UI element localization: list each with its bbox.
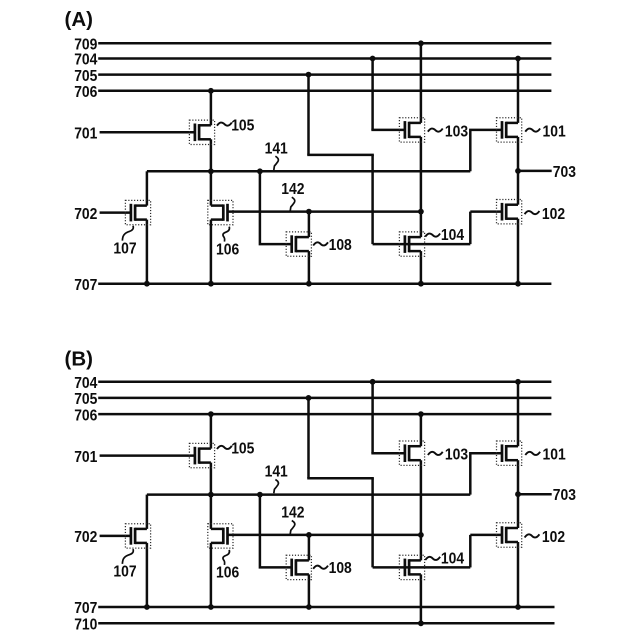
wire node 703 stub — [518, 493, 552, 496]
junction 706 x drain-wire of 105 — [208, 88, 214, 94]
svg-text:104: 104 — [441, 551, 464, 568]
svg-text:107: 107 — [113, 564, 136, 581]
wire 704 to gate of 103 down — [371, 59, 374, 130]
transistor 102 — [497, 200, 522, 224]
wire 706 to drain of 105 — [210, 91, 213, 126]
leader for label 142 — [290, 197, 295, 211]
wire bus 705 — [98, 73, 551, 76]
label ~105 — [217, 123, 232, 126]
junction 706 x drain-wire of 103 — [418, 411, 424, 417]
wire 701 to gate of 105 — [100, 131, 195, 134]
svg-text:(A): (A) — [65, 8, 93, 31]
wire node 142 — [228, 534, 421, 537]
transistor 107 — [125, 200, 150, 224]
svg-text:704: 704 — [74, 52, 97, 69]
wire bus 707 — [98, 282, 551, 285]
wire gate of 104 through-line to 102 gate route — [373, 566, 471, 569]
junction 704 x gate-wire of 103 — [370, 379, 376, 385]
junction 705 x gate-route of 104 — [306, 395, 312, 401]
junction 707 x source of 106 — [208, 281, 214, 287]
wire gate of 104 through-line to 102 gate route — [373, 243, 471, 246]
wire bus 706 — [98, 90, 551, 93]
junction 707 x source of 108 — [306, 281, 312, 287]
wire source of 102 to 707 — [517, 542, 520, 607]
wire source of 104 to 710 — [420, 574, 423, 623]
svg-text:101: 101 — [543, 447, 566, 464]
svg-text:142: 142 — [281, 181, 304, 198]
junction node 141 x 105/106 column — [208, 168, 214, 174]
wire 704 to gate of 103 horizontal — [371, 129, 405, 132]
transistor 106 — [208, 200, 233, 224]
transistor 105 — [189, 443, 214, 467]
transistor 105 — [189, 120, 214, 144]
label ~103 — [428, 128, 443, 131]
transistor 103 — [399, 441, 424, 465]
junction 707 x source of 102 — [515, 281, 521, 287]
svg-text:705: 705 — [74, 68, 97, 85]
wire bus 709 — [98, 42, 551, 45]
leader for label 141 — [274, 156, 279, 170]
svg-text:101: 101 — [543, 123, 566, 140]
svg-text:106: 106 — [216, 565, 239, 582]
wire source of 102 to 707 — [517, 219, 520, 284]
wire node 141 — [147, 170, 470, 173]
wire source of 105 to node 141 — [210, 139, 213, 171]
svg-text:107: 107 — [113, 240, 136, 257]
junction node 141 x gate-wire of 108 — [257, 492, 263, 498]
svg-text:102: 102 — [542, 529, 565, 546]
junction 707 x source of 106 — [208, 604, 214, 610]
wire 705 route down to gate of 104 — [371, 478, 374, 567]
wire node 141 to gate of 108 — [260, 495, 292, 568]
wire source of 108 to 707 — [308, 251, 311, 284]
svg-text:105: 105 — [231, 441, 254, 458]
wire 705 route horizontal — [307, 154, 374, 157]
junction node 142 x drain-wire of 108 — [306, 532, 312, 538]
junction 707 x source of 108 — [306, 604, 312, 610]
svg-text:706: 706 — [74, 407, 97, 424]
wire 705 route down — [307, 75, 310, 155]
svg-text:702: 702 — [74, 206, 97, 223]
svg-text:707: 707 — [74, 277, 97, 294]
label ~108 — [313, 242, 328, 245]
junction node 703 — [515, 168, 521, 174]
wire 704 to drain of 101 — [517, 382, 520, 446]
label ~108 — [313, 566, 328, 569]
transistor 106 — [208, 524, 233, 548]
wire source of 107 to 707 — [146, 220, 149, 284]
wire 704 to drain of 101 — [517, 59, 520, 123]
wire source of 106 to 707 — [210, 543, 213, 607]
junction 710 x source of 104 — [418, 620, 424, 626]
wire source of 101 to node 703 — [517, 460, 520, 494]
svg-text:108: 108 — [329, 560, 352, 577]
junction node 703 — [515, 491, 521, 497]
label ~103 — [428, 452, 443, 455]
wire node 141 to gate of 108 — [260, 171, 292, 244]
wire node 141 to drain of 106 — [210, 495, 213, 529]
svg-text:104: 104 — [441, 227, 464, 244]
svg-text:102: 102 — [542, 206, 565, 223]
wire bus 704 — [98, 381, 551, 384]
svg-text:142: 142 — [281, 505, 304, 522]
wire node 142 to drain of 108 — [308, 212, 311, 238]
leader for label 107 — [122, 549, 133, 564]
wire bus 707 — [98, 606, 554, 609]
wire node 141 to gate of 101 — [470, 453, 502, 494]
wire node 141 to drain of 106 — [210, 171, 213, 205]
svg-text:141: 141 — [265, 464, 288, 481]
svg-text:108: 108 — [329, 237, 352, 254]
svg-text:103: 103 — [445, 123, 468, 140]
wire 102 gate route up — [469, 212, 472, 245]
wire source of 105 to node 141 — [210, 463, 213, 495]
wire 705 route horizontal — [307, 477, 374, 480]
junction 705 x gate-route of 104 — [306, 72, 312, 78]
wire 702 to gate of 107 — [100, 535, 131, 538]
junction node 142 x drain-wire of 108 — [306, 209, 312, 215]
svg-text:141: 141 — [265, 140, 288, 157]
svg-text:705: 705 — [74, 391, 97, 408]
junction 707 x source of 107 — [144, 281, 150, 287]
wire 701 to gate of 105 — [100, 454, 195, 457]
junction 706 x drain-wire of 105 — [208, 411, 214, 417]
wire 702 to gate of 107 — [100, 211, 131, 214]
wire 704 to gate of 103 horizontal — [371, 452, 405, 455]
wire node 703 to drain of 102 — [517, 494, 520, 528]
wire to gate of 102 — [470, 534, 502, 537]
wire 704 to gate of 103 down — [371, 382, 374, 453]
wire source of 104 to 707 — [420, 251, 423, 284]
leader for label 107 — [122, 226, 133, 241]
wire node 703 stub — [518, 170, 552, 173]
wire source of 101 to node 703 — [517, 137, 520, 171]
svg-text:105: 105 — [231, 117, 254, 134]
junction node 141 x gate-wire of 108 — [257, 168, 263, 174]
svg-text:706: 706 — [74, 84, 97, 101]
wire source of 106 to 707 — [210, 220, 213, 284]
svg-text:704: 704 — [74, 375, 97, 392]
wire bus 706 — [98, 413, 551, 416]
wire 705 route down — [307, 398, 310, 478]
junction 709 x drain-wire of 103 — [418, 40, 424, 46]
wire node 141 to drain of 107 — [146, 171, 149, 205]
junction node 142 x 103/104 column — [418, 209, 424, 215]
transistor 108 — [286, 232, 311, 256]
wire bus 710 — [98, 622, 554, 625]
label ~102 — [525, 534, 540, 537]
transistor 101 — [497, 118, 522, 142]
junction node 141 x 105/106 column — [208, 492, 214, 498]
wire bus 704 — [98, 57, 551, 60]
leader for label 142 — [290, 521, 295, 535]
label ~104 — [425, 233, 440, 236]
transistor 104 — [399, 555, 424, 579]
svg-text:106: 106 — [216, 241, 239, 258]
svg-text:710: 710 — [74, 617, 97, 634]
svg-text:707: 707 — [74, 600, 97, 617]
leader for label 106 — [223, 550, 230, 565]
wire 709 to drain of 103 — [420, 43, 423, 123]
wire 706 to drain of 105 — [210, 414, 213, 449]
transistor 102 — [497, 523, 522, 547]
junction 707 x source of 104 — [418, 281, 424, 287]
wire to gate of 102 — [470, 210, 502, 213]
label ~101 — [525, 452, 540, 455]
label ~102 — [525, 211, 540, 214]
junction 707 x source of 107 — [144, 604, 150, 610]
wire bus 705 — [98, 397, 551, 400]
wire node 141 — [147, 493, 470, 496]
svg-text:(B): (B) — [65, 347, 93, 370]
svg-text:703: 703 — [553, 164, 576, 181]
junction 704 x gate-wire of 103 — [370, 56, 376, 62]
wire node 141 to gate of 101 — [470, 130, 502, 171]
wire source of 103 to drain of 104 — [420, 137, 423, 237]
label ~101 — [525, 128, 540, 131]
label ~105 — [217, 446, 232, 449]
wire 102 gate route up — [469, 535, 472, 568]
transistor 104 — [399, 232, 424, 256]
junction 704 x drain-wire of 101 — [515, 379, 521, 385]
wire source of 108 to 707 — [308, 574, 311, 607]
transistor 108 — [286, 555, 311, 579]
junction 707 x source of 102 — [515, 604, 521, 610]
leader for label 141 — [274, 480, 279, 494]
wire node 142 — [228, 210, 421, 213]
wire source of 103 to drain of 104 — [420, 460, 423, 560]
wire node 703 to drain of 102 — [517, 171, 520, 205]
wire 705 route down to gate of 104 — [371, 155, 374, 244]
svg-text:702: 702 — [74, 529, 97, 546]
wire node 141 to drain of 107 — [146, 495, 149, 529]
svg-text:103: 103 — [445, 447, 468, 464]
junction 704 x drain-wire of 101 — [515, 56, 521, 62]
wire 706 to drain of 103 — [420, 414, 423, 446]
transistor 107 — [125, 524, 150, 548]
wire node 142 to drain of 108 — [308, 535, 311, 561]
svg-text:703: 703 — [553, 487, 576, 504]
svg-text:701: 701 — [74, 126, 97, 143]
wire source of 107 to 707 — [146, 543, 149, 607]
svg-text:701: 701 — [74, 449, 97, 466]
transistor 103 — [399, 118, 424, 142]
label ~104 — [425, 557, 440, 560]
junction node 142 x 103/104 column — [418, 532, 424, 538]
leader for label 106 — [223, 227, 230, 242]
transistor 101 — [497, 441, 522, 465]
